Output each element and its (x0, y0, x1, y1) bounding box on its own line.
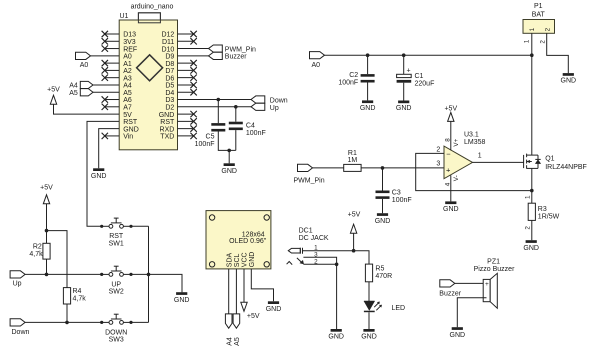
svg-text:Buzzer: Buzzer (439, 291, 461, 298)
wire LED to ground (368, 312, 370, 329)
svg-text:+5V: +5V (444, 105, 457, 112)
ground below R3 (523, 240, 539, 252)
svg-text:D7: D7 (165, 68, 174, 75)
node A5 (left tag) (69, 89, 93, 97)
junction A0/C1 (402, 53, 406, 57)
svg-text:GND: GND (450, 332, 466, 339)
svg-text:P1: P1 (534, 3, 543, 10)
connector DC1 DC JACK (287, 228, 329, 265)
U1 reference designator (120, 13, 129, 20)
wire PZ1 to ground (457, 298, 486, 327)
resistor R1 1M (344, 150, 361, 171)
svg-text:1: 1 (478, 153, 482, 160)
wire Buzzer tag to PZ1 (455, 282, 487, 284)
node Down (lower-left tag) (10, 319, 29, 336)
svg-text:+: + (407, 68, 411, 75)
svg-text:A5: A5 (234, 337, 241, 346)
op-amp V+ label (453, 138, 460, 146)
svg-text:DOWN: DOWN (105, 329, 127, 336)
wire U1 GND pin down (99, 129, 120, 169)
wire C2 to ground (367, 83, 369, 101)
ground below C1 (396, 101, 412, 113)
wire right vertical joining switches (148, 226, 150, 322)
wire +5V arrow to DC1 rail (353, 233, 355, 251)
svg-text:DC1: DC1 (299, 228, 313, 235)
switch SW3 DOWN (100, 314, 132, 344)
piezo buzzer PZ1 Pizzo Buzzer (474, 259, 516, 309)
svg-text:2: 2 (525, 226, 532, 230)
OLED pin name SCL (234, 253, 241, 267)
svg-text:A0: A0 (123, 54, 132, 61)
OLED pin name SDA (226, 252, 233, 267)
transistor Q1 IRLZ44NPBF (524, 154, 587, 171)
ground below DC1 (328, 329, 344, 341)
svg-text:D8: D8 (165, 61, 174, 68)
battery connector P1 BAT body (523, 3, 555, 34)
svg-text:UP: UP (111, 281, 121, 288)
node A4 (below OLED, down tag) (225, 314, 233, 346)
svg-text:GND: GND (396, 105, 412, 112)
U1 left pin names (123, 32, 139, 141)
U1 right pin names (159, 32, 175, 141)
junction C5/C4 ground stub (227, 149, 231, 153)
svg-text:GND: GND (249, 252, 256, 268)
wire feedback op-amp pin 2 to Q1 source (416, 153, 532, 190)
svg-text:D2: D2 (165, 105, 174, 112)
wire R4 to Down row (66, 304, 68, 322)
svg-text:1R/5W: 1R/5W (538, 213, 560, 220)
wire C3 to ground (382, 199, 384, 213)
svg-text:470R: 470R (375, 273, 392, 280)
OLED display module 128x64 0.96in body (206, 211, 271, 269)
resistor R4 4,7k (63, 288, 86, 304)
wire P1 pin1 to A0 rail (531, 33, 533, 55)
svg-text:RST: RST (160, 119, 175, 126)
svg-text:+: + (446, 166, 451, 175)
svg-text:A4: A4 (69, 83, 78, 90)
P1 pin number 1 (524, 39, 531, 43)
op-amp V- label (453, 175, 460, 181)
svg-text:+5V: +5V (47, 87, 60, 94)
svg-text:Q1: Q1 (545, 156, 554, 163)
svg-text:+5V: +5V (40, 185, 53, 192)
svg-text:D3: D3 (165, 97, 174, 104)
svg-text:U3.1: U3.1 (464, 131, 479, 138)
svg-text:R4: R4 (73, 288, 82, 295)
svg-text:GND: GND (375, 218, 391, 225)
ground below U1 (91, 168, 107, 180)
wire op-amp output to Q1 gate (473, 161, 524, 163)
svg-text:GND: GND (174, 297, 190, 304)
svg-text:3: 3 (436, 161, 440, 168)
node Buzzer (lower tag) (439, 280, 461, 298)
svg-text:V+: V+ (453, 138, 460, 146)
svg-text:Down: Down (270, 98, 288, 105)
svg-text:D13: D13 (123, 32, 136, 39)
node PWM_Pin (input tag) (294, 164, 325, 184)
svg-text:4,7k: 4,7k (73, 296, 87, 303)
DC1 pin number 2 (314, 258, 318, 265)
wire Q1 drain to battery junction (531, 55, 533, 155)
svg-text:OLED 0.96": OLED 0.96" (229, 238, 267, 245)
ground at op-amp pin 4 (443, 201, 459, 213)
svg-text:VCC: VCC (242, 252, 249, 267)
svg-text:GND: GND (443, 206, 459, 213)
svg-text:Down: Down (12, 329, 30, 336)
op-amp pin 3 label (436, 161, 440, 168)
op-amp pin 8 label (444, 138, 451, 142)
OLED pin name GND (249, 252, 256, 268)
svg-text:C4: C4 (246, 122, 255, 129)
wire to ground below C5/C4 (228, 150, 230, 163)
wire +5V branch to R4 (47, 231, 68, 288)
P1 pin name 2 (544, 27, 551, 31)
wire U1 D9 to Buzzer tag (178, 55, 209, 57)
IC U1 arduino_nano body (119, 13, 177, 150)
wire U1 D3 to Down tag (178, 99, 252, 101)
svg-text:Vin: Vin (123, 134, 133, 141)
junction R2/Up row (45, 273, 49, 277)
svg-text:1M: 1M (348, 157, 358, 164)
wire Up tag to SW2 (25, 273, 102, 275)
svg-text:SW3: SW3 (109, 337, 124, 344)
junction switches common (147, 273, 151, 277)
ground below LED (361, 329, 377, 341)
ground for switches (174, 292, 190, 304)
svg-text:5V: 5V (123, 112, 132, 119)
svg-text:C1: C1 (415, 73, 424, 80)
svg-text:D10: D10 (161, 46, 174, 53)
wire U1 D10 to PWM_Pin tag (178, 48, 209, 50)
svg-text:SDA: SDA (226, 252, 233, 267)
op-amp circuit schematic page (0, 0, 1, 1)
svg-text:3V3: 3V3 (123, 39, 136, 46)
svg-text:Buzzer: Buzzer (225, 54, 247, 61)
svg-text:+5V: +5V (247, 313, 260, 320)
svg-text:PZ1: PZ1 (487, 259, 500, 266)
svg-text:GND: GND (123, 126, 139, 133)
svg-text:100nF: 100nF (195, 141, 215, 148)
ground below C3 (375, 213, 391, 225)
node A5 (below OLED, down tag) (233, 314, 241, 346)
wire DC1 pin3 to pin2 (303, 257, 336, 264)
svg-text:Up: Up (270, 105, 279, 112)
svg-text:−: − (446, 149, 451, 158)
wire C4 down (235, 130, 237, 150)
wire +5V to U1 5V pin (54, 104, 120, 114)
wire D2 junction to C4 (235, 107, 237, 122)
wire PWM_Pin to R1 (313, 167, 344, 169)
svg-text:RST: RST (109, 233, 124, 240)
wire OLED SDA down (228, 269, 230, 314)
+5V power symbol below OLED VCC (down arrow) (241, 302, 260, 320)
svg-text:GND: GND (361, 334, 377, 341)
node PWM_Pin (output tag) (209, 45, 257, 54)
svg-text:1: 1 (525, 195, 532, 199)
capacitor C4 100nF (229, 122, 266, 137)
svg-text:A0: A0 (312, 62, 321, 69)
node A0 (left tag) (76, 52, 91, 69)
P1 pin number 2 (539, 40, 546, 44)
svg-text:A4: A4 (227, 337, 234, 346)
svg-text:1: 1 (529, 27, 536, 31)
svg-text:R1: R1 (348, 150, 357, 157)
svg-text:1: 1 (524, 39, 531, 43)
svg-text:TXD: TXD (160, 134, 174, 141)
wire R3 to ground (531, 220, 533, 240)
svg-text:GND: GND (91, 173, 107, 180)
wire DC1 pin1 to R5/+5V (303, 251, 370, 264)
svg-text:GND: GND (159, 112, 175, 119)
capacitor C3 100nF (376, 190, 412, 205)
svg-text:+5V: +5V (348, 211, 361, 218)
ground below C2 (360, 100, 376, 112)
svg-text:GND: GND (266, 306, 282, 313)
resistor R2 4,7k (29, 243, 50, 259)
P1 pin name 1 (529, 27, 536, 31)
capacitor C1 220uF electrolytic (397, 68, 435, 88)
node Up (lower-left tag) (10, 271, 25, 288)
svg-text:GND: GND (221, 168, 237, 175)
svg-text:D12: D12 (161, 32, 174, 39)
svg-text:C5: C5 (206, 133, 215, 140)
switch SW1 RST (100, 218, 132, 248)
junction A0/P1/Q1 drain (530, 53, 534, 57)
svg-text:R2: R2 (33, 244, 42, 251)
wire Down tag to SW3 (25, 321, 102, 323)
wire U1 A4 pin to tag (93, 84, 119, 86)
svg-text:D11: D11 (162, 39, 174, 46)
+5V power symbol at op-amp pin 8 (444, 105, 457, 121)
+5V power symbol above DC1 (348, 211, 361, 233)
+5V power symbol above R2 (40, 185, 53, 204)
svg-text:U1: U1 (120, 13, 129, 20)
svg-text:100nF: 100nF (392, 197, 412, 204)
svg-text:GND: GND (561, 78, 577, 85)
svg-text:2: 2 (436, 146, 440, 153)
junction Q1 source/feedback/R3 (530, 189, 534, 193)
svg-text:R5: R5 (375, 266, 384, 273)
capacitor C5 100nF (195, 123, 226, 148)
svg-text:PWM_Pin: PWM_Pin (294, 177, 325, 184)
wire SW1 to right vertical (131, 225, 149, 227)
wire A0 rail to battery (325, 54, 532, 56)
DC1 pin number 1 (314, 244, 318, 251)
svg-text:D4: D4 (165, 90, 174, 97)
U1 no-connect pins left (X marks) (102, 31, 120, 139)
junction DC1 pin2/pin3 (335, 263, 339, 267)
wire D3 junction to C5 (217, 100, 219, 124)
wire switches common to ground (149, 274, 183, 292)
op-amp pin 1 label (478, 153, 482, 160)
wire U1 RST pin to switch SW1 (87, 121, 119, 226)
node Up (tag at D2) (251, 103, 279, 112)
svg-text:BAT: BAT (532, 11, 546, 18)
svg-text:RST: RST (123, 119, 138, 126)
junction DC1/+5V (352, 249, 356, 253)
wire A0 rail to C1 (403, 55, 405, 74)
svg-text:LED: LED (392, 305, 406, 312)
wire junction to C3 (382, 168, 384, 191)
R3 pin number 1 (525, 195, 532, 199)
wire U1 D2 to Up tag (178, 106, 252, 108)
wire +5V to op-amp pin 8 (450, 121, 452, 150)
svg-text:A5: A5 (123, 90, 132, 97)
svg-text:A3: A3 (123, 75, 132, 82)
junction R4/Down row (65, 321, 69, 325)
wire Q1 source down (531, 168, 533, 203)
wire SW2 to right vertical (131, 273, 149, 275)
wire OLED GND to ground (251, 269, 273, 301)
U1 title arduino_nano (131, 4, 174, 11)
svg-text:LM358: LM358 (464, 139, 486, 146)
wire P1 pin2 to ground (547, 33, 569, 73)
svg-text:IRLZ44NPBF: IRLZ44NPBF (545, 164, 587, 171)
svg-text:REF: REF (123, 46, 137, 53)
resistor R5 470R (365, 264, 392, 282)
svg-text:100nF: 100nF (246, 130, 266, 137)
wire C1 to ground (403, 83, 405, 101)
wire R1 to op-amp pin 3 (361, 167, 444, 169)
DC1 pin number 3 (314, 251, 318, 258)
svg-text:A5: A5 (69, 90, 78, 97)
U1 no-connect pins right (X marks) (178, 31, 197, 139)
svg-text:A7: A7 (123, 105, 132, 112)
wire U1 A0 pin to tag (91, 55, 120, 57)
R3 pin number 2 (525, 226, 532, 230)
svg-text:A0: A0 (80, 62, 89, 69)
node A4 (left tag) (69, 81, 93, 89)
svg-text:GND: GND (360, 105, 376, 112)
svg-text:100nF: 100nF (338, 79, 358, 86)
svg-text:A4: A4 (123, 83, 132, 90)
wire A0 rail to C2 (367, 55, 369, 74)
svg-text:220uF: 220uF (415, 80, 435, 87)
switch SW2 UP (100, 266, 132, 296)
node A0 (right tag) (310, 52, 325, 69)
OLED pin name VCC (242, 252, 249, 267)
wire SW3 to right vertical (131, 321, 149, 323)
wire op-amp pin 4 to ground (450, 175, 452, 201)
svg-text:RXD: RXD (160, 126, 175, 133)
svg-text:Up: Up (13, 281, 22, 288)
op-amp pin 4 label (444, 182, 451, 186)
svg-text:DC JACK: DC JACK (299, 235, 329, 242)
ground below PZ1 (450, 327, 466, 339)
op-amp U3.1 LM358 triangle (444, 131, 486, 178)
svg-text:D9: D9 (165, 54, 174, 61)
ground below C5/C4 (221, 163, 237, 175)
svg-text:A1: A1 (123, 61, 132, 68)
ground below OLED (266, 301, 282, 313)
svg-text:V-: V- (453, 175, 460, 181)
svg-text:PWM_Pin: PWM_Pin (225, 46, 256, 53)
svg-text:C2: C2 (349, 72, 358, 79)
svg-text:A6: A6 (123, 97, 132, 104)
svg-text:Pizzo Buzzer: Pizzo Buzzer (474, 266, 516, 273)
svg-text:+: + (485, 281, 489, 288)
node Buzzer (output tag) (209, 52, 248, 61)
wire C5 to ground rail (218, 132, 236, 151)
svg-text:GND: GND (523, 245, 539, 252)
svg-text:arduino_nano: arduino_nano (131, 4, 174, 11)
svg-text:D6: D6 (165, 75, 174, 82)
svg-text:2: 2 (544, 27, 551, 31)
op-amp pin 2 label (436, 146, 440, 153)
junction D3/C5 (217, 98, 221, 102)
capacitor C2 100nF (338, 72, 374, 87)
svg-text:D5: D5 (165, 83, 174, 90)
svg-text:2: 2 (539, 40, 546, 44)
wire DC1 pin2 to ground (303, 264, 336, 329)
wire OLED SCL down (235, 269, 237, 314)
LED D indicator (364, 301, 405, 312)
junction +5V split to R4 (45, 229, 49, 233)
wire OLED VCC down (243, 269, 245, 302)
junction A0/C2 (366, 53, 370, 57)
svg-text:4,7k: 4,7k (29, 251, 43, 258)
junction D2/C4 (234, 105, 238, 109)
ground at P1 pin2 (561, 73, 577, 85)
svg-text:GND: GND (328, 334, 344, 341)
wire R2 to Up row (46, 259, 48, 274)
svg-text:SW2: SW2 (109, 289, 124, 296)
wire U1 A5 pin to tag (93, 91, 119, 93)
resistor R3 1R/5W (528, 203, 559, 220)
node Down (tag at D3) (251, 96, 288, 105)
svg-text:SW1: SW1 (109, 241, 124, 248)
+5V power symbol at U1 5V pin (47, 87, 60, 105)
svg-text:A2: A2 (123, 68, 132, 75)
wire +5V down to R2 (46, 204, 48, 244)
svg-text:C3: C3 (392, 190, 401, 197)
svg-text:SCL: SCL (234, 253, 241, 267)
junction R1/C3 (381, 166, 385, 170)
wire R5 to LED (368, 282, 370, 301)
svg-text:R3: R3 (538, 206, 547, 213)
